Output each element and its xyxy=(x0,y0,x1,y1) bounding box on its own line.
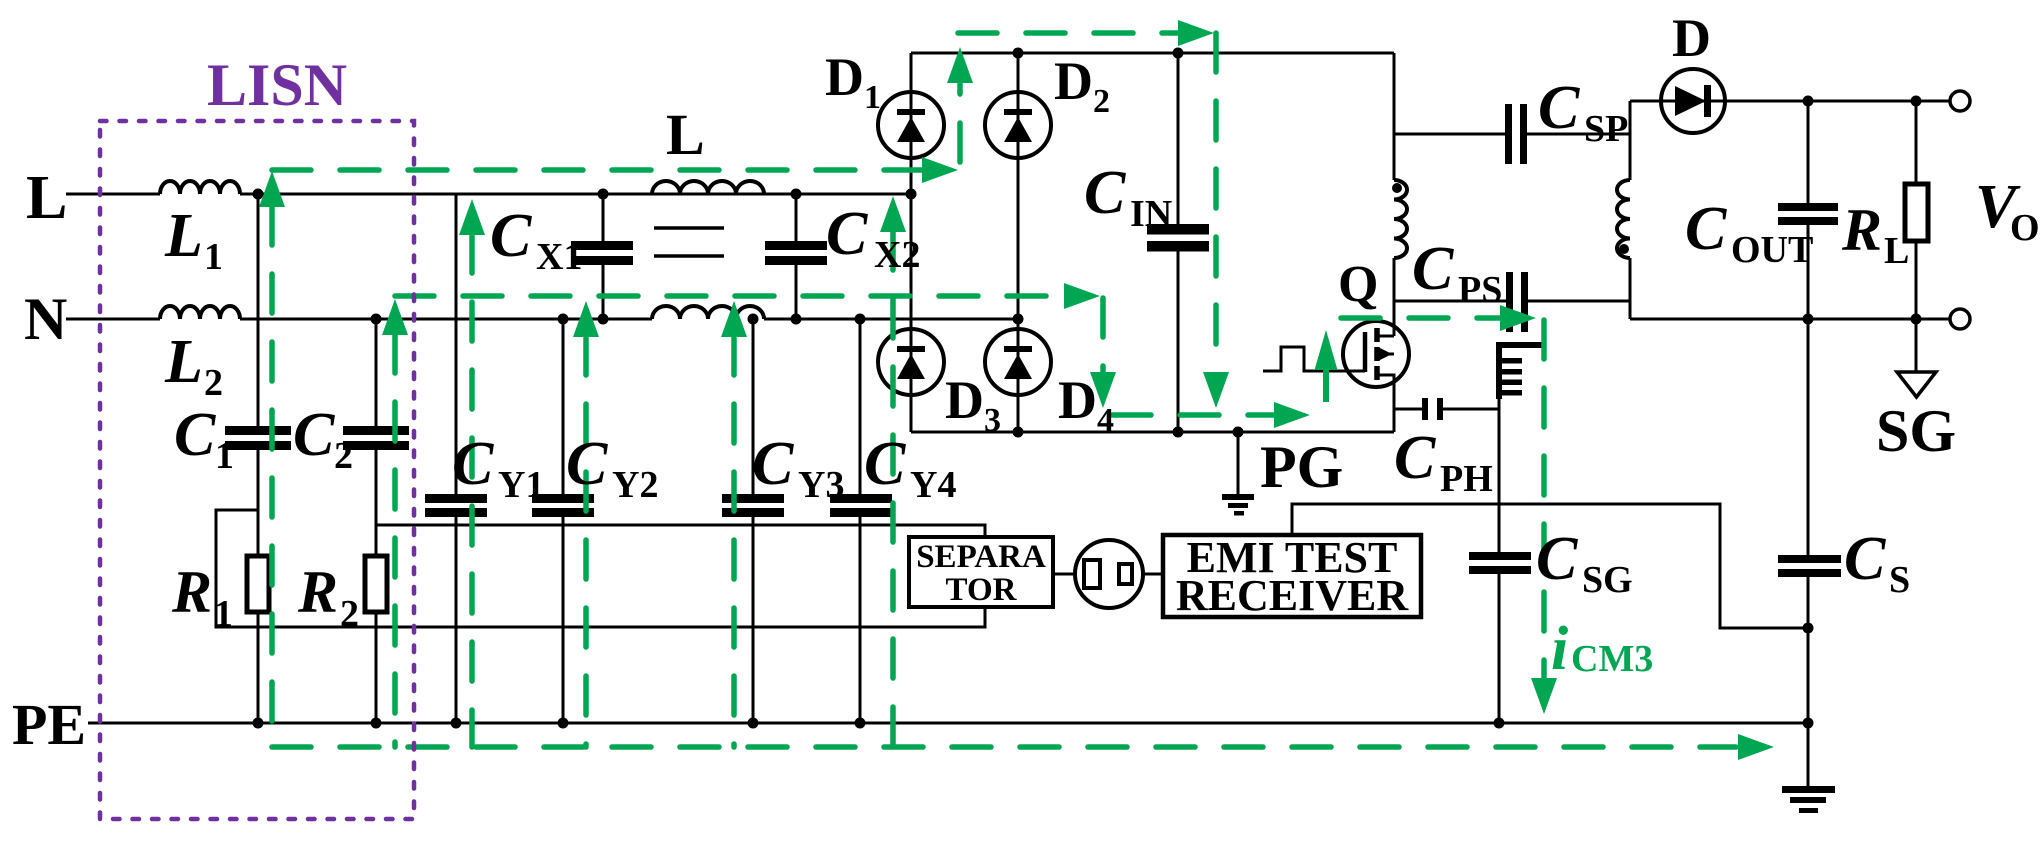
junction junction bottom rail CIN xyxy=(1173,427,1184,438)
svg-text:SG: SG xyxy=(1876,398,1956,464)
connector plug symbol xyxy=(1075,540,1143,608)
wire R1 measurement tap xyxy=(216,510,985,627)
noise path arrow up at C1 xyxy=(259,171,285,207)
resistor RL xyxy=(1905,184,1928,241)
svg-text:4: 4 xyxy=(1097,402,1114,439)
resistor R2 xyxy=(365,556,387,612)
svg-text:R: R xyxy=(1841,197,1882,263)
svg-text:C: C xyxy=(752,430,794,498)
wire N input line xyxy=(66,318,1018,321)
svg-text:PS: PS xyxy=(1458,269,1502,311)
junction junction VO+ RL xyxy=(1911,96,1922,107)
svg-text:C: C xyxy=(826,200,868,268)
junction junction PE CY4 xyxy=(855,718,866,729)
capacitor CX2 xyxy=(765,241,827,250)
svg-text:D: D xyxy=(1058,370,1097,430)
noise path wire down to bottom rail xyxy=(1213,33,1219,372)
wire output top line xyxy=(1630,100,1950,103)
junction junction PE CY3 xyxy=(748,718,759,729)
svg-text:2: 2 xyxy=(340,593,359,635)
wire bridge left rail xyxy=(910,53,913,432)
noise path arrow up at CY3 xyxy=(721,301,747,337)
capacitor C2 xyxy=(343,426,409,435)
svg-text:L: L xyxy=(1884,230,1909,272)
svg-text:1: 1 xyxy=(204,236,223,278)
svg-text:L: L xyxy=(26,164,67,232)
svg-text:Q: Q xyxy=(1338,256,1378,313)
diode D3 xyxy=(878,329,944,395)
junction junction CS tap xyxy=(1803,623,1814,634)
svg-text:L: L xyxy=(164,202,203,270)
junction node L-CX1 xyxy=(598,189,609,200)
noise path wire top xyxy=(958,30,1178,36)
svg-text:1: 1 xyxy=(214,593,233,635)
svg-text:2: 2 xyxy=(334,435,353,477)
inductor L choke lower winding xyxy=(652,306,764,319)
capacitor CSP xyxy=(1394,133,1630,136)
inductor L2 xyxy=(160,306,240,319)
junction junction bottom rail D4 xyxy=(1013,427,1024,438)
transformer secondary winding xyxy=(1629,101,1632,319)
noise path arrow up at CY2 xyxy=(573,301,599,337)
junction junction PE R2 xyxy=(371,718,382,729)
svg-text:SEPARA: SEPARA xyxy=(916,539,1046,575)
diode D2 xyxy=(985,92,1051,158)
capacitor CIN xyxy=(1147,224,1209,235)
diode D1 xyxy=(878,92,944,158)
noise path wire along PE xyxy=(272,744,1736,750)
wire L input line xyxy=(66,193,911,196)
junction node N-CY3 xyxy=(748,314,759,325)
junction junction PE R1 xyxy=(253,718,264,729)
inductor L choke core xyxy=(654,228,724,256)
wire EMI receiver to CS node xyxy=(1292,504,1808,628)
wire PE line xyxy=(88,722,1810,725)
transformer primary winding xyxy=(1393,53,1396,336)
terminal VO+ xyxy=(1950,91,1970,111)
svg-text:S: S xyxy=(1889,559,1910,601)
capacitor COUT xyxy=(1778,203,1838,211)
svg-text:C: C xyxy=(1084,159,1126,227)
junction junction top rail D2 xyxy=(1013,48,1024,59)
svg-text:IN: IN xyxy=(1130,193,1172,235)
wire bridge bottom rail xyxy=(911,431,1394,434)
junction junction bottom rail PG xyxy=(1233,427,1244,438)
junction junction VO+ COUT xyxy=(1803,96,1814,107)
svg-text:Y3: Y3 xyxy=(798,464,844,506)
capacitor CPS xyxy=(1394,300,1630,303)
junction node L-C1 xyxy=(253,189,264,200)
junction node L-CX2 xyxy=(791,189,802,200)
junction node N-CY2 xyxy=(558,314,569,325)
svg-text:D: D xyxy=(825,47,864,107)
capacitor CX1 xyxy=(571,241,633,250)
junction junction VO- RL xyxy=(1911,314,1922,325)
svg-text:TOR: TOR xyxy=(946,572,1018,608)
svg-text:PG: PG xyxy=(1260,434,1343,500)
noise path wire above L line xyxy=(272,167,922,173)
inductor L choke upper winding xyxy=(652,181,764,194)
noise path wire above N line xyxy=(395,293,1064,299)
noise path arrow up at CY1 xyxy=(459,199,485,235)
earth ground bottom right xyxy=(1807,723,1810,786)
svg-text:C: C xyxy=(1538,74,1580,142)
capacitor CPH xyxy=(1394,408,1499,411)
svg-text:PH: PH xyxy=(1440,458,1493,500)
junction node N-CX1 bottom xyxy=(598,314,609,325)
capacitor CSG xyxy=(1498,409,1501,723)
junction node N-C2 xyxy=(371,314,382,325)
svg-text:C: C xyxy=(1844,525,1886,593)
svg-text:D: D xyxy=(1054,51,1093,111)
svg-text:i: i xyxy=(1551,615,1568,683)
svg-text:SG: SG xyxy=(1582,559,1633,601)
capacitor C1 xyxy=(225,426,291,435)
svg-text:Y2: Y2 xyxy=(612,464,658,506)
diode D xyxy=(1661,69,1725,133)
noise path iCM3 down wire xyxy=(1541,320,1547,678)
svg-text:L: L xyxy=(666,102,705,167)
gate drive pulse source xyxy=(1263,347,1365,371)
svg-text:X2: X2 xyxy=(874,234,920,276)
diode D4 xyxy=(985,329,1051,395)
capacitor CY3 xyxy=(722,494,784,503)
inductor L1 xyxy=(160,181,240,194)
noise path wire through CPS xyxy=(1341,315,1500,321)
wire bridge top rail xyxy=(911,52,1394,55)
capacitor CY1 xyxy=(425,494,487,503)
svg-text:3: 3 xyxy=(984,402,1001,439)
svg-text:C: C xyxy=(174,401,216,469)
wire separator left leads xyxy=(1053,573,1163,576)
svg-text:PE: PE xyxy=(12,692,86,757)
svg-text:C: C xyxy=(864,430,906,498)
box EMI TEST RECEIVER xyxy=(1163,535,1421,617)
svg-text:C: C xyxy=(1685,195,1727,263)
svg-text:2: 2 xyxy=(204,362,223,404)
svg-text:O: O xyxy=(2010,207,2040,249)
transformer primary polarity dot xyxy=(1392,183,1402,193)
svg-text:C: C xyxy=(1536,525,1578,593)
svg-text:Y1: Y1 xyxy=(498,464,544,506)
noise path wire along bottom rail xyxy=(1112,412,1274,418)
noise path arrow up to top rail xyxy=(957,82,963,162)
junction junction PE CS xyxy=(1803,718,1814,729)
svg-text:C: C xyxy=(490,202,532,270)
svg-text:D: D xyxy=(945,370,984,430)
svg-text:C: C xyxy=(293,401,335,469)
svg-text:X1: X1 xyxy=(536,236,582,278)
svg-text:C: C xyxy=(566,430,608,498)
resistor R1 xyxy=(247,556,269,612)
svg-text:OUT: OUT xyxy=(1731,229,1813,271)
ground PG xyxy=(1237,432,1240,494)
svg-text:1: 1 xyxy=(215,435,234,477)
svg-text:2: 2 xyxy=(1093,83,1110,120)
svg-text:1: 1 xyxy=(864,79,881,116)
wire bridge right rail xyxy=(1017,53,1020,432)
junction junction PE CY2 xyxy=(558,718,569,729)
svg-text:C: C xyxy=(1394,424,1436,492)
noise path arrow up at Q xyxy=(1323,370,1329,402)
box SEPARATOR xyxy=(909,537,1053,607)
junction node N-CX2 bottom xyxy=(791,314,802,325)
svg-text:N: N xyxy=(24,286,67,352)
junction junction VO- COUT xyxy=(1803,314,1814,325)
svg-text:L: L xyxy=(164,328,203,396)
junction junction PE CY1 xyxy=(451,718,462,729)
capacitor CY4 xyxy=(830,494,892,503)
junction node N-bridge xyxy=(1013,314,1024,325)
noise path arrow down D4 side xyxy=(1100,298,1106,372)
svg-text:C: C xyxy=(452,430,494,498)
svg-text:R: R xyxy=(297,559,338,625)
svg-text:CM3: CM3 xyxy=(1571,638,1653,680)
ground SG symbol xyxy=(1915,319,1918,372)
junction node N-CY4 xyxy=(855,314,866,325)
svg-text:RECEIVER: RECEIVER xyxy=(1176,571,1409,620)
svg-text:LISN: LISN xyxy=(207,52,347,118)
junction node L-bridge xyxy=(906,189,917,200)
junction junction top rail CIN xyxy=(1173,48,1184,59)
svg-text:C: C xyxy=(1412,235,1454,303)
transistor Q mosfet xyxy=(1343,321,1409,387)
junction junction PE CSG xyxy=(1494,718,1505,729)
noise path arrow up at R2 xyxy=(382,299,408,335)
svg-text:SP: SP xyxy=(1584,108,1628,150)
svg-text:Y4: Y4 xyxy=(910,464,956,506)
noise path arrow up at CY4 xyxy=(880,196,906,232)
svg-text:R: R xyxy=(171,559,212,625)
capacitor CY2 xyxy=(532,494,594,503)
LISN boundary box xyxy=(100,121,414,819)
wire output bottom line xyxy=(1630,318,1950,321)
terminal VO- xyxy=(1950,309,1970,329)
heatsink xyxy=(1496,342,1544,348)
capacitor CS xyxy=(1807,319,1810,723)
transformer secondary polarity dot xyxy=(1619,244,1629,254)
svg-text:D: D xyxy=(1672,8,1711,68)
wire choke upper line xyxy=(651,193,654,196)
